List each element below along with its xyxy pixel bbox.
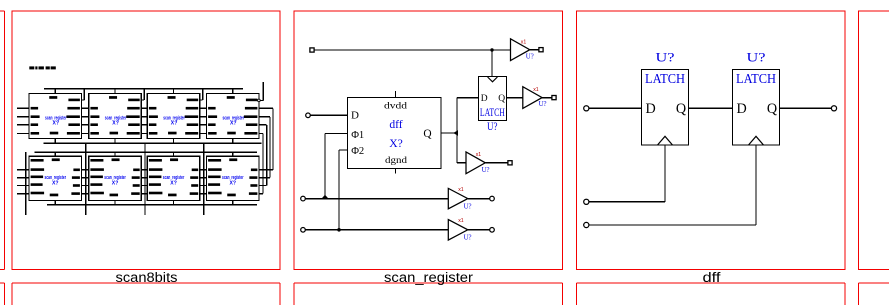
red cell frame row1 col3 (577, 11, 846, 270)
svg-text:LATCH: LATCH (480, 107, 505, 119)
svg-text:x1: x1 (521, 40, 527, 46)
svg-text:U?: U? (487, 119, 498, 133)
svg-text:Φ1: Φ1 (351, 130, 364, 141)
svg-text:X?: X? (230, 121, 237, 127)
wire latch2 Q to output port (780, 107, 832, 109)
svg-text:X?: X? (112, 180, 119, 186)
port phi1_buf (circle) (490, 196, 495, 201)
svg-text:x1: x1 (458, 218, 464, 224)
port phi2_buf (circle) (490, 228, 495, 233)
wire dgnd bus below row2 (47, 204, 257, 206)
dff instance X? (box) (348, 91, 442, 174)
latch U? (panel3 right) (733, 50, 780, 145)
wire buffer output top right (530, 49, 539, 51)
wires bit chain row1 between X0 and X1 (82, 89, 89, 134)
red cell frame row2 col4 (cut at bottom) (859, 283, 889, 305)
svg-text:X?: X? (230, 180, 237, 186)
wire dvdd bus above row2 (35, 151, 257, 153)
svg-text:X?: X? (53, 121, 60, 127)
wire phi1 bottom net (305, 198, 448, 200)
port Q output (circle) (831, 106, 836, 111)
wire phi2 bottom net (305, 229, 448, 231)
svg-text:X?: X? (171, 121, 178, 127)
junction node phi1/latch clock (490, 48, 493, 51)
svg-text:D: D (737, 101, 747, 117)
red cell frame row1 col1 (12, 11, 280, 270)
wire phi2 to dff (339, 150, 348, 230)
svg-text:U?: U? (747, 50, 766, 64)
buffer U? (bottom 1) (448, 187, 471, 211)
wire clock drop vertical 2 (144, 143, 146, 215)
svg-text:dff: dff (389, 118, 402, 131)
svg-text:U?: U? (656, 50, 675, 64)
wire top dvdd bus row1 (44, 88, 243, 90)
svg-text:dvdd: dvdd (384, 100, 408, 110)
svg-text:X?: X? (389, 137, 403, 150)
scan_register instance X0 (row1) (29, 89, 82, 144)
svg-text:x1: x1 (458, 187, 464, 193)
junction phi1 bottom (triangle) (321, 195, 328, 199)
latch U? (panel2) (479, 77, 507, 134)
svg-text:D: D (481, 94, 488, 104)
svg-text:U?: U? (482, 167, 490, 174)
wire phi1 to dff (325, 133, 348, 198)
red cell frame row1 col2 (294, 11, 563, 270)
svg-text:LATCH: LATCH (645, 71, 685, 86)
wires scan input stubs row1 left (17, 108, 29, 133)
port phi1 (square) (310, 48, 314, 52)
svg-text:Q: Q (423, 128, 432, 140)
wires bit chain row2 between X5 and X6 (141, 170, 147, 194)
scan_register instance X3 (row1) (207, 89, 260, 144)
svg-text:Q: Q (498, 94, 505, 104)
wires feedback bus right side (259, 108, 273, 193)
wire clock drop vertical 0 (25, 152, 27, 215)
svg-text:U?: U? (539, 101, 547, 108)
svg-text:U?: U? (464, 235, 472, 242)
junction Q node (triangle) (453, 130, 458, 136)
wires bit chain row1 between X1 and X2 (141, 89, 147, 134)
port phi1_in (circle) (301, 196, 306, 201)
svg-text:Φ2: Φ2 (351, 146, 364, 157)
wire phi2 to latch2 clock (589, 145, 756, 225)
latch U? (panel3 left) (642, 50, 689, 145)
red cell frame row2 col3 (cut at bottom) (577, 283, 846, 305)
red cell frame row2 col1 (cut at bottom) (12, 283, 280, 305)
wire buffer output (bottom 2) (468, 229, 490, 231)
svg-text:dff: dff (703, 270, 721, 285)
port phi2_in (circle) (301, 228, 306, 233)
svg-text:x1: x1 (533, 87, 539, 93)
title text "8 bit scan register" (29, 66, 56, 69)
scan_register instance X5 (row2) (89, 152, 142, 204)
wire dff Q output (441, 132, 457, 134)
wire clock drop vertical 3 (203, 143, 205, 215)
svg-text:U?: U? (526, 53, 534, 60)
svg-text:x1: x1 (476, 152, 482, 158)
wire latch clock vertical (491, 50, 493, 77)
scan_register instance X7 (row2) (207, 152, 260, 204)
svg-text:dgnd: dgnd (385, 155, 408, 165)
wire phi1 to latch1 clock (589, 145, 665, 202)
buffer U? (bottom 2) (448, 218, 471, 242)
svg-text:D: D (351, 109, 359, 121)
wires bit chain row2 between X6 and X7 (200, 170, 207, 194)
wire input to latch1 D (589, 107, 642, 109)
port phi1 clock (circle) (584, 199, 589, 204)
cell name label dff (703, 270, 721, 285)
port scan_out (square) (508, 161, 512, 165)
wires scan input stubs row2 left (17, 170, 29, 194)
port bit_in (circle) (306, 113, 311, 118)
svg-text:X?: X? (112, 121, 119, 127)
junction phi2 bottom (dot) (337, 228, 341, 232)
wire bit_out export stub top right (258, 82, 264, 102)
svg-text:scan_register: scan_register (384, 270, 474, 285)
scan_register instance X4 (row2) (29, 152, 82, 204)
wire buffer output (bottom 1) (468, 198, 490, 200)
port D input (circle) (584, 106, 589, 111)
cell name label scan8bits (116, 270, 178, 285)
scan_register instance X2 (row1) (147, 89, 200, 144)
scan_register instance X6 (row2) (147, 152, 200, 204)
red cell frame row2 col2 (cut at bottom) (294, 283, 563, 305)
buffer U? (right of latch) (523, 87, 547, 109)
wires bit chain row1 between X2 and X3 (200, 89, 207, 134)
buffer U? (below latch) (466, 152, 490, 174)
wire dgnd bus below row1 (44, 142, 262, 144)
port phi1_out (square) (539, 48, 543, 52)
buffer U? (top right) (511, 39, 534, 61)
svg-text:X?: X? (170, 180, 177, 186)
svg-text:Q: Q (767, 101, 777, 117)
wire phi1 net top (314, 49, 511, 51)
wire buffer output (right of latch) (542, 97, 552, 99)
wire latch Q output (507, 97, 523, 99)
cell name label scan_register (384, 270, 474, 285)
port phi2 clock (circle) (584, 222, 589, 227)
port bit_out (square) (552, 96, 556, 100)
svg-text:LATCH: LATCH (736, 71, 776, 86)
wire latch1 Q to latch2 D (689, 107, 733, 109)
wire bit_in to D (310, 114, 347, 116)
wires bit chain row2 between X4 and X5 (82, 170, 89, 194)
svg-text:Q: Q (676, 101, 686, 117)
svg-text:scan8bits: scan8bits (116, 270, 178, 285)
red cell frame row1 col4 (859, 11, 889, 270)
svg-text:X?: X? (52, 180, 59, 186)
svg-text:U?: U? (464, 203, 472, 210)
wire latch D input (457, 98, 479, 133)
wire clock drop vertical 1 (85, 143, 87, 215)
scan_register instance X1 (row1) (89, 89, 142, 144)
wire Q down to buffer (457, 133, 466, 163)
wire buffer output (below latch) (485, 162, 508, 164)
svg-text:D: D (646, 101, 656, 117)
red frame: previous column right border (cut at left edge) (0, 11, 5, 305)
